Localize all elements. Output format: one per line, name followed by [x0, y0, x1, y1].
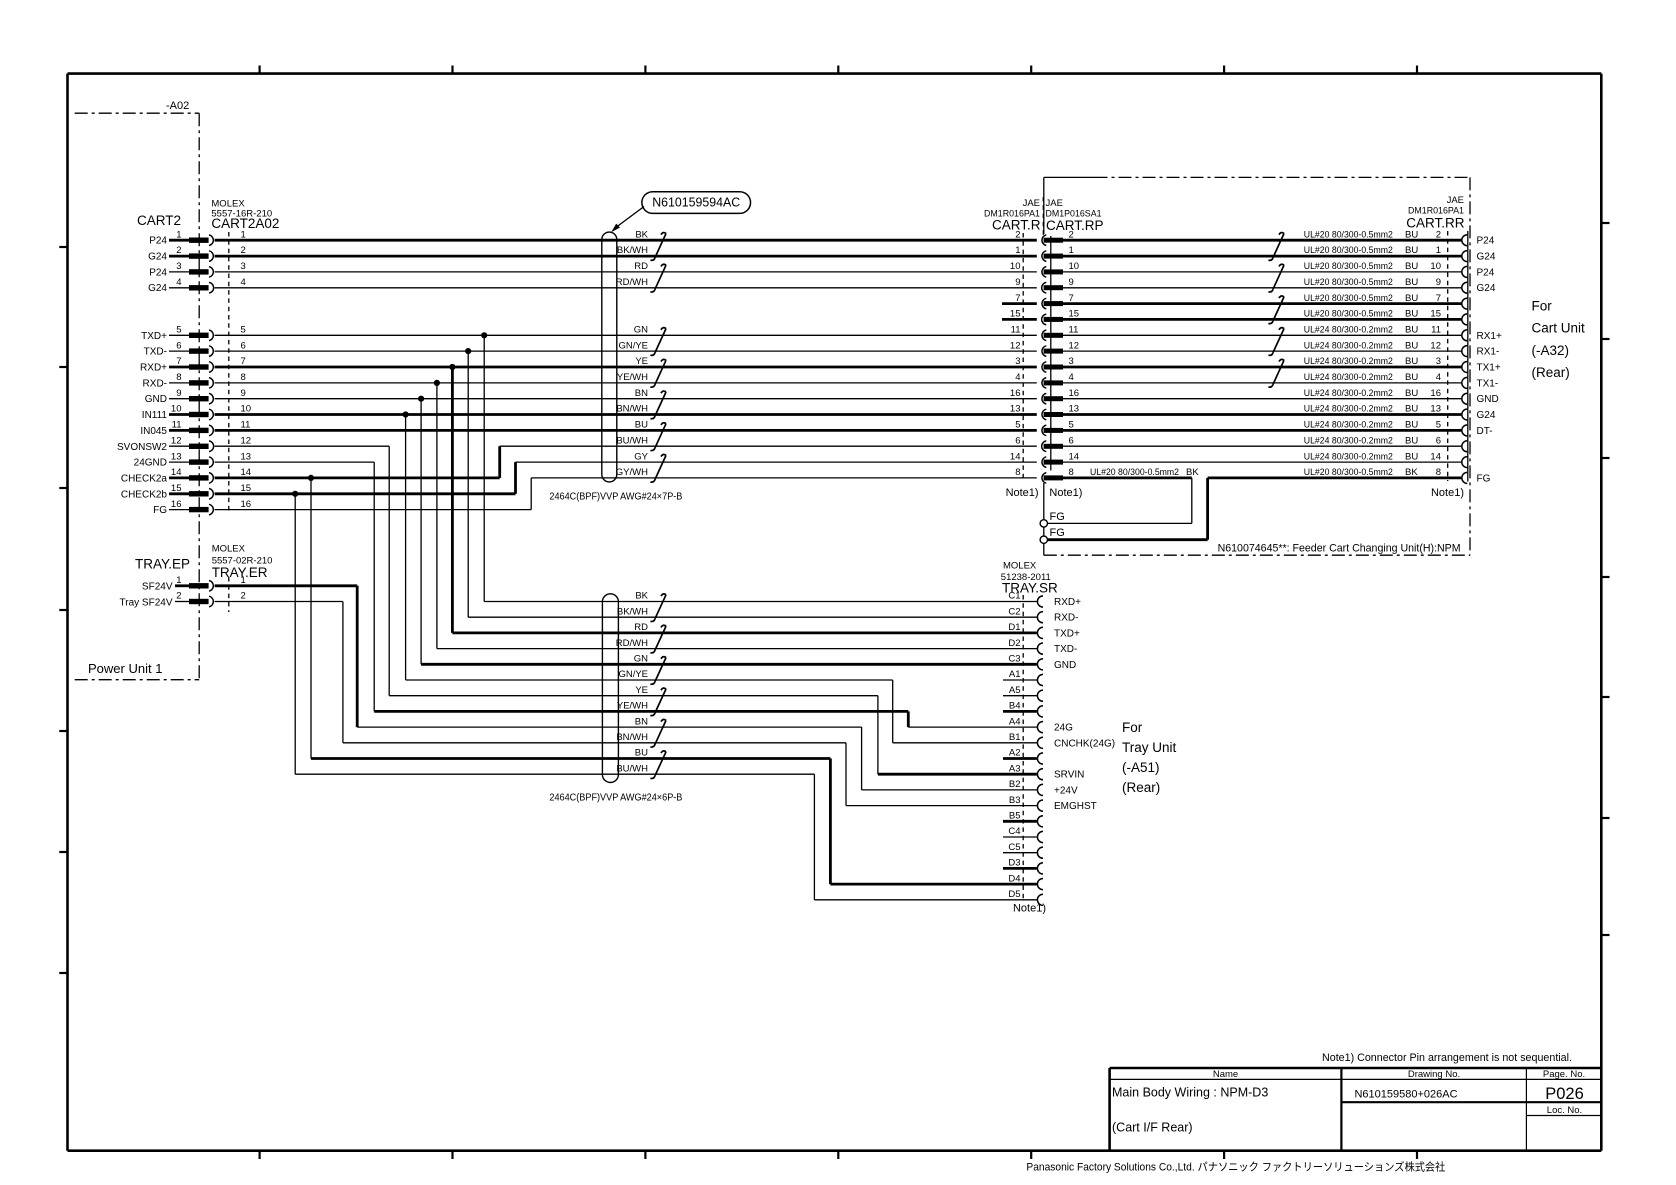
svg-text:BN: BN — [635, 716, 648, 727]
svg-text:CHECK2b: CHECK2b — [121, 489, 168, 500]
svg-text:RXD-: RXD- — [1054, 613, 1078, 624]
svg-text:5: 5 — [1015, 420, 1020, 431]
wire -> TRAY.SR B3 EMGHST — [846, 805, 1037, 807]
junction GND branch — [418, 396, 424, 402]
svg-text:1: 1 — [1069, 245, 1074, 256]
svg-text:B3: B3 — [1009, 795, 1021, 806]
svg-text:5: 5 — [176, 325, 181, 336]
svg-text:UL#24 80/300-0.2mm2: UL#24 80/300-0.2mm2 — [1304, 325, 1393, 336]
CART2 pin 7 (RXD+) — [140, 356, 246, 373]
svg-text:9: 9 — [1436, 277, 1441, 288]
svg-text:10: 10 — [1069, 261, 1080, 272]
drop CHECK2a — [310, 478, 312, 759]
svg-text:14: 14 — [171, 467, 182, 478]
svg-text:UL#20 80/300-0.5mm2: UL#20 80/300-0.5mm2 — [1090, 467, 1179, 478]
step CHECK2a up to BU/WH row — [498, 446, 501, 478]
svg-text:BU: BU — [1405, 229, 1418, 240]
svg-text:6: 6 — [176, 340, 181, 351]
svg-text:BU: BU — [1405, 404, 1418, 415]
svg-text:(Rear): (Rear) — [1122, 780, 1160, 795]
label For Tray Unit — [1122, 720, 1177, 795]
wire P24 pin1 -> CART.R 2 — [215, 239, 1037, 242]
TRAY.SR stub B4 — [1003, 710, 1037, 713]
junction RXD+ branch — [449, 364, 455, 370]
svg-text:BU/WH: BU/WH — [616, 435, 648, 446]
TRAY.SR stub A1 — [1003, 679, 1037, 681]
spec label 13 — [1304, 404, 1441, 415]
svg-text:Loc. No.: Loc. No. — [1547, 1105, 1582, 1116]
svg-text:GND: GND — [1477, 394, 1499, 405]
svg-text:2464C(BPF)VVP AWG#24×7P-B: 2464C(BPF)VVP AWG#24×7P-B — [549, 492, 682, 503]
wire BN row — [357, 726, 861, 728]
svg-text:13: 13 — [241, 451, 252, 462]
wire CHECK2a to step — [215, 476, 500, 479]
spec label 9 — [1304, 277, 1441, 288]
CART2 pin 1 (P24) — [149, 229, 246, 246]
svg-text:YE: YE — [635, 685, 648, 696]
svg-text:15: 15 — [241, 483, 252, 494]
CART.RR pin 1 — [1462, 251, 1468, 262]
TRAY.SR pin A4 — [1009, 716, 1043, 732]
wire CART.RP 4 -> CART.RR — [1063, 382, 1461, 384]
TRAY.SR pin A2 — [1009, 748, 1043, 764]
wire YE/WH row — [374, 710, 908, 713]
wire P24 pin3 -> CART.R 10 — [215, 271, 1037, 273]
svg-text:7: 7 — [1015, 293, 1020, 304]
svg-text:14: 14 — [1430, 451, 1441, 462]
wire CART.RP 12 -> CART.RR — [1063, 350, 1461, 352]
svg-text:7: 7 — [1069, 293, 1074, 304]
svg-text:GY/WH: GY/WH — [616, 467, 648, 478]
svg-text:TXD+: TXD+ — [1054, 628, 1080, 639]
svg-text:GY: GY — [634, 451, 648, 462]
svg-text:6: 6 — [1436, 435, 1441, 446]
TRAY.SR pin D3 — [1008, 858, 1043, 874]
wire -> TRAY.SR A4 24G — [908, 726, 1037, 728]
svg-text:1: 1 — [241, 229, 246, 240]
spec label 11 — [1304, 325, 1441, 336]
drop IN111 — [405, 415, 407, 681]
TRAY.SR stub A5 — [1003, 695, 1037, 697]
svg-text:Note1): Note1) — [1431, 487, 1464, 499]
svg-text:TRAY.EP: TRAY.EP — [135, 557, 190, 572]
CART2 pin 15 (CHECK2b) — [121, 483, 251, 500]
svg-text:RXD+: RXD+ — [1054, 597, 1081, 608]
svg-text:N610074645**: Feeder Cart Chan: N610074645**: Feeder Cart Changing Unit(… — [1218, 543, 1461, 555]
svg-text:TXD-: TXD- — [144, 347, 167, 358]
drop TXD- — [467, 351, 469, 617]
svg-text:UL#24 80/300-0.2mm2: UL#24 80/300-0.2mm2 — [1304, 420, 1393, 431]
svg-text:RX1+: RX1+ — [1477, 331, 1502, 342]
svg-text:G24: G24 — [1477, 283, 1496, 294]
svg-text:C1: C1 — [1008, 591, 1020, 602]
TRAY.SR pin C4 — [1008, 826, 1043, 842]
drop RXD+ — [451, 367, 454, 633]
svg-text:MOLEX: MOLEX — [212, 544, 246, 555]
svg-text:UL#20 80/300-0.5mm2: UL#20 80/300-0.5mm2 — [1304, 245, 1393, 256]
wire SF24V — [215, 584, 358, 587]
wire IN045 (BU) -> CART.R 5 — [215, 429, 1037, 432]
wire -> TRAY.SR A3 SRVIN — [878, 773, 1037, 776]
svg-text:EMGHST: EMGHST — [1054, 801, 1097, 812]
svg-text:RXD-: RXD- — [143, 378, 167, 389]
svg-text:Drawing No.: Drawing No. — [1408, 1069, 1460, 1080]
TRAY.SR pin C1 — [1008, 591, 1043, 607]
svg-text:2: 2 — [176, 245, 181, 256]
CART.RR pin 16 — [1462, 393, 1468, 404]
svg-text:UL#24 80/300-0.2mm2: UL#24 80/300-0.2mm2 — [1304, 372, 1393, 383]
svg-text:JAE: JAE — [1023, 198, 1040, 209]
svg-text:JAE: JAE — [1046, 198, 1063, 209]
label For Cart Unit — [1532, 299, 1586, 380]
CART.R mating line — [1022, 233, 1024, 478]
wire CART.RP 14 -> CART.RR — [1063, 461, 1461, 463]
wire FG to step — [215, 509, 532, 511]
svg-text:2464C(BPF)VVP AWG#24×6P-B: 2464C(BPF)VVP AWG#24×6P-B — [549, 793, 682, 804]
svg-text:TX1+: TX1+ — [1477, 363, 1501, 374]
CART.R pin 15 stub — [1002, 318, 1037, 321]
wire -> TRAY.SR B2 +24V — [862, 789, 1037, 791]
svg-text:BK: BK — [1405, 467, 1418, 478]
svg-text:16: 16 — [241, 499, 252, 510]
svg-text:3: 3 — [1069, 356, 1074, 367]
CART2 pin 14 (CHECK2a) — [121, 467, 251, 484]
svg-text:11: 11 — [1431, 325, 1441, 336]
svg-text:FG: FG — [153, 505, 167, 516]
jog BN/WH down to B3 — [845, 743, 847, 806]
CART.R/RP divider dashes — [1042, 197, 1044, 236]
wire CART.RP 11 -> CART.RR — [1063, 334, 1461, 336]
svg-text:15: 15 — [1010, 309, 1021, 320]
svg-text:3: 3 — [241, 261, 246, 272]
CART2 pin 2 (G24) — [148, 245, 246, 262]
TRAY.SR stub B5 — [1003, 820, 1037, 823]
svg-text:UL#20 80/300-0.5mm2: UL#20 80/300-0.5mm2 — [1304, 309, 1393, 320]
svg-text:8: 8 — [241, 372, 246, 383]
CART.RR pin 14 — [1462, 457, 1468, 468]
svg-text:TXD-: TXD- — [1054, 644, 1077, 655]
svg-text:BU: BU — [1405, 261, 1418, 272]
wire GY/WH row -> CART.R 8 — [531, 477, 1037, 479]
svg-text:1: 1 — [1015, 245, 1020, 256]
CART.RR pin 3 — [1462, 362, 1468, 373]
svg-text:4: 4 — [176, 277, 181, 288]
svg-text:C2: C2 — [1008, 606, 1020, 617]
svg-text:2: 2 — [1436, 229, 1441, 240]
svg-text:(Cart I/F Rear): (Cart I/F Rear) — [1112, 1121, 1193, 1135]
svg-text:N610159580+026AC: N610159580+026AC — [1354, 1089, 1457, 1101]
svg-text:1: 1 — [1436, 245, 1441, 256]
wire TXD- (GN/YE) -> CART.R 12 — [215, 350, 1037, 352]
CART2 pin 9 (GND) — [145, 388, 246, 405]
svg-text:BK: BK — [635, 229, 648, 240]
svg-text:Tray SF24V: Tray SF24V — [120, 597, 173, 608]
svg-text:D4: D4 — [1008, 873, 1020, 884]
svg-text:Power Unit 1: Power Unit 1 — [88, 661, 162, 676]
svg-text:16: 16 — [171, 499, 182, 510]
CART.RR pin 9 — [1462, 282, 1468, 293]
svg-text:YE/WH: YE/WH — [617, 701, 648, 712]
wire BU row — [311, 757, 830, 760]
svg-text:11: 11 — [172, 420, 182, 431]
svg-text:UL#24 80/300-0.2mm2: UL#24 80/300-0.2mm2 — [1304, 356, 1393, 367]
spec label 15 — [1304, 309, 1441, 320]
svg-text:BK/WH: BK/WH — [617, 245, 648, 256]
svg-text:13: 13 — [1430, 404, 1441, 415]
svg-text:BU: BU — [1405, 372, 1418, 383]
power unit -A02 boundary (dash-dot) — [75, 112, 200, 114]
svg-text:UL#20 80/300-0.5mm2: UL#20 80/300-0.5mm2 — [1304, 467, 1393, 478]
svg-text:UL#24 80/300-0.2mm2: UL#24 80/300-0.2mm2 — [1304, 435, 1393, 446]
svg-text:G24: G24 — [1477, 410, 1496, 421]
svg-text:D3: D3 — [1008, 858, 1020, 869]
jog YE down to A3 — [877, 696, 879, 775]
CART.RR pin 2 — [1462, 235, 1468, 246]
svg-text:MOLEX: MOLEX — [1003, 561, 1037, 572]
svg-text:UL#24 80/300-0.2mm2: UL#24 80/300-0.2mm2 — [1304, 404, 1393, 415]
svg-text:Note1): Note1) — [1006, 487, 1039, 499]
svg-text:RD/WH: RD/WH — [616, 277, 648, 288]
svg-text:Note1) Connector Pin arrangeme: Note1) Connector Pin arrangement is not … — [1322, 1052, 1572, 1064]
wire CART.RP 1 -> CART.RR — [1063, 255, 1461, 258]
CART.R/CART.RP pin 13 — [1010, 404, 1079, 420]
spec label 16 — [1304, 388, 1441, 399]
drop GND — [420, 399, 422, 665]
svg-text:UL#20 80/300-0.5mm2: UL#20 80/300-0.5mm2 — [1304, 261, 1393, 272]
spec label 14 — [1304, 451, 1441, 462]
cable sheath oval (7P) — [602, 232, 617, 482]
svg-text:BU: BU — [1405, 451, 1418, 462]
CART2 pin 10 (IN111) — [142, 404, 251, 421]
step FG up to GY/WH row — [530, 478, 532, 510]
wire CART.RP 7 -> CART.RR — [1063, 302, 1461, 305]
wire CART.RP 8 -> FG terminal — [1063, 476, 1192, 479]
svg-text:C3: C3 — [1008, 654, 1020, 665]
wire RXD- (YE/WH) -> CART.R 4 — [215, 382, 1037, 384]
svg-text:BU: BU — [1405, 420, 1418, 431]
wire FG terminal 2 -> CART.RR 8 — [1048, 538, 1208, 541]
TRAY.SR stub D3 — [1003, 867, 1037, 870]
svg-text:SVONSW2: SVONSW2 — [117, 442, 167, 453]
svg-text:GN/YE: GN/YE — [618, 669, 648, 680]
CART.RR pin 11 — [1462, 330, 1468, 341]
svg-text:9: 9 — [176, 388, 181, 399]
spec label 5 — [1304, 420, 1441, 431]
svg-text:16: 16 — [1010, 388, 1021, 399]
svg-text:GN: GN — [634, 325, 648, 336]
wire GN/YE row — [406, 679, 893, 681]
CART.R/CART.RP pin 9 — [1015, 277, 1074, 293]
svg-text:Name: Name — [1213, 1069, 1238, 1080]
svg-text:BN: BN — [635, 388, 648, 399]
svg-text:FG: FG — [1477, 473, 1491, 484]
wire RD row -> TRAY.SR D1 — [452, 632, 1036, 635]
svg-text:13: 13 — [1010, 404, 1021, 415]
FG chain vertical (CART.RP body to box) — [1043, 177, 1045, 234]
svg-text:GN: GN — [634, 654, 648, 665]
svg-text:BU: BU — [1405, 325, 1418, 336]
TRAY.SR pin D1 — [1008, 622, 1043, 638]
svg-text:D5: D5 — [1008, 889, 1020, 900]
svg-text:G24: G24 — [148, 283, 167, 294]
TRAY.SR stub A2 — [1003, 757, 1037, 760]
svg-text:7: 7 — [1436, 293, 1441, 304]
svg-text:RD: RD — [634, 622, 648, 633]
svg-text:4: 4 — [241, 277, 246, 288]
TRAY.SR pin B2 — [1009, 779, 1043, 795]
svg-text:DT-: DT- — [1477, 426, 1493, 437]
wire GND (BN) -> CART.R 16 — [215, 398, 1037, 400]
svg-text:G24: G24 — [1477, 252, 1496, 263]
CART.R/CART.RP pin 3 — [1015, 356, 1074, 372]
svg-text:UL#24 80/300-0.2mm2: UL#24 80/300-0.2mm2 — [1304, 451, 1393, 462]
svg-text:D1: D1 — [1008, 622, 1020, 633]
CART2 pin 11 (IN045) — [140, 420, 250, 437]
svg-text:24GND: 24GND — [134, 458, 167, 469]
spec label 3 — [1304, 356, 1441, 367]
drop RXD- — [436, 383, 438, 649]
svg-text:TX1-: TX1- — [1477, 378, 1499, 389]
svg-text:BU: BU — [1405, 435, 1418, 446]
svg-text:Note1): Note1) — [1049, 487, 1082, 499]
CART.R/CART.RP pin 10 — [1010, 261, 1079, 277]
spec label 7 — [1304, 293, 1441, 304]
drawing sheet border — [68, 72, 1602, 75]
svg-text:14: 14 — [1010, 451, 1021, 462]
svg-text:B5: B5 — [1009, 811, 1021, 822]
CART2 pin 4 (G24) — [148, 277, 246, 294]
TRAY.SR pin B4 — [1009, 701, 1043, 717]
junction RXD- branch — [434, 380, 440, 386]
CART.RP body line — [1050, 236, 1052, 471]
svg-text:8: 8 — [1436, 467, 1441, 478]
svg-text:5: 5 — [1436, 420, 1441, 431]
svg-text:+24V: +24V — [1054, 785, 1078, 796]
TRAY.SR mating line — [1022, 595, 1024, 902]
svg-text:Note1): Note1) — [1013, 903, 1046, 915]
svg-text:(-A51): (-A51) — [1122, 760, 1160, 775]
svg-text:-A02: -A02 — [166, 100, 189, 112]
svg-text:UL#20 80/300-0.5mm2: UL#20 80/300-0.5mm2 — [1304, 277, 1393, 288]
wire -> TRAY.SR D5 — [814, 899, 1036, 901]
wire BN/WH row — [343, 742, 846, 744]
svg-text:6: 6 — [1069, 435, 1074, 446]
drop CHECK2b — [294, 494, 296, 774]
wire GN row -> TRAY.SR C3 — [421, 663, 1037, 666]
svg-text:5: 5 — [241, 325, 246, 336]
svg-text:12: 12 — [1430, 340, 1441, 351]
svg-text:A5: A5 — [1009, 685, 1021, 696]
wire BK/WH row -> TRAY.SR C2 — [468, 616, 1037, 618]
drop SVONSW2 — [388, 446, 390, 696]
svg-text:SRVIN: SRVIN — [1054, 770, 1084, 781]
svg-text:16: 16 — [1069, 388, 1080, 399]
CART.RR pin 7 — [1462, 298, 1468, 309]
svg-text:4: 4 — [1069, 372, 1074, 383]
svg-text:N610159594AC: N610159594AC — [652, 196, 740, 210]
CART.RR pin 5 — [1462, 425, 1468, 436]
svg-text:(Rear): (Rear) — [1532, 365, 1570, 380]
svg-text:15: 15 — [1430, 309, 1441, 320]
svg-text:3: 3 — [1015, 356, 1020, 367]
wire G24 pin2 -> CART.R 1 — [215, 255, 1037, 258]
svg-text:2: 2 — [241, 591, 246, 602]
title block — [1110, 1068, 1602, 1151]
svg-text:2: 2 — [176, 591, 181, 602]
junction TXD+ branch — [481, 332, 487, 338]
TRAY.ER mating line — [228, 577, 230, 612]
TRAY.SR pin B5 — [1009, 811, 1043, 827]
svg-text:For: For — [1532, 299, 1553, 314]
svg-text:(-A32): (-A32) — [1532, 343, 1570, 358]
svg-text:11: 11 — [241, 420, 251, 431]
CART.R/CART.RP pin 15 — [1010, 309, 1079, 325]
svg-text:Panasonic Factory Solutions Co: Panasonic Factory Solutions Co.,Ltd. パナソ… — [1026, 1159, 1445, 1173]
svg-text:11: 11 — [1069, 325, 1079, 336]
wire GY row -> CART.R 14 — [516, 461, 1037, 463]
CART.RR pin 12 — [1462, 346, 1468, 357]
wire CART.RP 6 -> CART.RR — [1063, 445, 1461, 447]
svg-text:GN/YE: GN/YE — [618, 340, 648, 351]
junction CHECK2a branch — [308, 475, 314, 481]
wire CART.RP 9 -> CART.RR — [1063, 287, 1461, 289]
CART.R/CART.RP pin 5 — [1015, 420, 1074, 436]
CART.RR pin 15 — [1462, 314, 1468, 325]
wire CART.RP 2 -> CART.RR — [1063, 239, 1461, 242]
svg-text:4: 4 — [1436, 372, 1441, 383]
junction CHECK2b branch — [292, 491, 298, 497]
CART.R pin 7 stub — [1002, 302, 1037, 305]
wire Tray SF24V — [215, 601, 343, 603]
spec label 6 — [1304, 435, 1441, 446]
svg-text:12: 12 — [1069, 340, 1080, 351]
CART.R/CART.RP pin 4 — [1015, 372, 1074, 388]
svg-text:RX1-: RX1- — [1477, 347, 1500, 358]
svg-text:RD/WH: RD/WH — [616, 638, 648, 649]
svg-text:BN/WH: BN/WH — [616, 732, 648, 743]
twisted pair marks (tray cable) — [661, 594, 666, 596]
svg-text:Page. No.: Page. No. — [1543, 1069, 1585, 1080]
svg-text:6: 6 — [1015, 435, 1020, 446]
svg-text:For: For — [1122, 720, 1143, 735]
TRAY.SR stub C5 — [1003, 852, 1037, 854]
svg-text:BU: BU — [1405, 309, 1418, 320]
svg-text:9: 9 — [241, 388, 246, 399]
CART2 pin 3 (P24) — [149, 261, 246, 278]
wire RD/WH row -> TRAY.SR D2 — [437, 648, 1037, 650]
wire G24 pin4 -> CART.R 9 — [215, 287, 1037, 289]
CART.RR pin 10 — [1462, 266, 1468, 277]
CART.R/CART.RP pin 1 — [1015, 245, 1074, 261]
TRAY.SR pin A5 — [1009, 685, 1043, 701]
svg-text:BU/WH: BU/WH — [616, 763, 648, 774]
svg-text:2: 2 — [1015, 229, 1020, 240]
svg-text:2: 2 — [241, 245, 246, 256]
title block texts — [1112, 1069, 1585, 1134]
step CHECK2b up to GY row — [514, 462, 517, 494]
svg-text:10: 10 — [241, 404, 252, 415]
CART.RR body line — [1467, 231, 1469, 482]
CART.R/CART.RP pin 2 — [1015, 229, 1074, 245]
svg-text:RD: RD — [634, 261, 648, 272]
svg-text:FG: FG — [1050, 511, 1065, 523]
svg-text:SF24V: SF24V — [142, 581, 173, 592]
wire BU/WH row — [295, 773, 814, 775]
svg-text:IN045: IN045 — [140, 426, 167, 437]
TRAY.SR pin B1 — [1009, 732, 1043, 748]
jog GN/YE down to B1 — [892, 680, 894, 743]
CART2 pin 16 (FG) — [153, 499, 251, 516]
